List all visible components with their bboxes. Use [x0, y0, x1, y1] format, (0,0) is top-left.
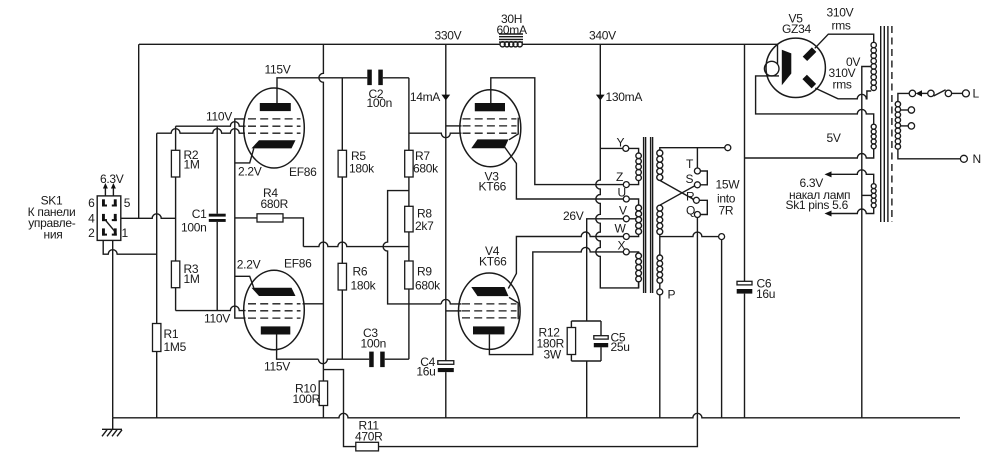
wire 6.3V top tap with arrow — [825, 170, 874, 184]
V4 cathode bar — [471, 287, 508, 296]
node switch circle a — [928, 90, 934, 96]
wire V2 anode down to C3 line — [277, 335, 319, 360]
resistor R1 — [153, 324, 161, 352]
wire R4 to R8-R9 junction — [303, 242, 409, 247]
svg-text:2.2V: 2.2V — [237, 258, 261, 272]
wire 330V column — [445, 44, 447, 418]
wire V5 upper anode to HV winding top — [815, 34, 874, 48]
wire mains top to L with switch — [898, 93, 909, 101]
svg-text:X: X — [618, 238, 626, 252]
wire to switch circle — [922, 92, 928, 94]
V4 anode plate — [473, 326, 505, 334]
V3 anode plate — [475, 103, 505, 111]
wire screen column from top rail to R10 junction — [319, 44, 323, 369]
OPT primary winding X-bottom — [629, 252, 638, 288]
svg-text:1M: 1M — [184, 158, 200, 172]
svg-text:rms: rms — [833, 78, 852, 92]
PT 6.3V winding — [871, 184, 876, 189]
OPT primary winding Y-Z — [629, 148, 639, 184]
pentode V1 EF86 envelope — [244, 88, 305, 168]
wire winding2 bottom to winding3 and terminal — [660, 232, 719, 255]
svg-text:115V: 115V — [264, 360, 290, 374]
wire SK1 pin2 down and right to R1 column — [103, 240, 157, 254]
arrow 14mA — [441, 95, 450, 101]
svg-text:680k: 680k — [413, 162, 439, 176]
node V terminal — [623, 216, 629, 222]
svg-text:1M: 1M — [184, 272, 200, 286]
wire winding1 bottom to R crossover — [660, 180, 694, 199]
wire V3 cathode to U tap — [504, 147, 623, 199]
SK1 pin contact 6 — [102, 199, 107, 206]
svg-text:1M5: 1M5 — [164, 340, 187, 354]
wire left rail to SK1 pin4 line — [138, 44, 140, 218]
node L terminal — [962, 90, 969, 97]
wire V3 screen from 330V column — [446, 125, 462, 127]
svg-text:25u: 25u — [611, 340, 630, 354]
wire P to ground rail — [659, 295, 661, 418]
svg-text:3W: 3W — [544, 348, 562, 362]
wire V4 grid row entry — [441, 299, 461, 304]
wire feedback from R11 to Q terminal — [379, 218, 698, 447]
resistor R12 with box — [567, 321, 601, 418]
resistor R8 — [405, 177, 413, 261]
SK1 heater pin stub 5 with arrow 6.3V — [111, 183, 116, 196]
svg-text:16u: 16u — [416, 365, 435, 379]
wire V3 anode to Z tap — [491, 78, 624, 185]
svg-text:6.3V: 6.3V — [100, 172, 124, 186]
wire V4 anode to X tap — [489, 247, 623, 354]
wire line B 110V to V1 bottom grid row — [157, 129, 245, 134]
svg-text:KT66: KT66 — [479, 255, 507, 269]
capacitor C4 — [438, 361, 454, 372]
svg-text:ния: ния — [44, 227, 63, 241]
V3 grid rows dashed — [463, 119, 517, 133]
svg-text:1: 1 — [122, 226, 129, 240]
tetrode V3 KT66 envelope — [460, 90, 521, 167]
wire cathode link column V1g3-V2g3 — [235, 119, 246, 318]
rectifier V5 GZ34 envelope — [766, 38, 825, 97]
svg-text:110V: 110V — [204, 312, 230, 326]
resistor R4 — [257, 214, 283, 222]
resistor R2 — [171, 126, 179, 261]
V5 filament stub from rail — [777, 44, 779, 64]
svg-text:W: W — [615, 221, 627, 235]
OPT secondary winding top — [657, 150, 663, 156]
capacitor C2 — [367, 70, 409, 86]
wire HT column to 5V winding bottom — [745, 149, 874, 158]
V5 filament loop — [764, 61, 779, 76]
svg-text:Z: Z — [616, 170, 623, 184]
svg-text:EF86: EF86 — [289, 165, 317, 179]
svg-text:R6: R6 — [353, 265, 368, 279]
SK1 pin contact 3 — [112, 214, 117, 221]
svg-text:60mA: 60mA — [497, 23, 527, 37]
arrow 130mA — [596, 95, 605, 101]
jumper R-Q — [699, 200, 707, 214]
wire V2 cathode to link column — [235, 276, 254, 288]
wire 6.3V winding center tap to 0V line — [862, 194, 871, 196]
wire V4 screen from 330V column — [446, 310, 462, 312]
wire mains bottom to N — [898, 149, 960, 159]
svg-text:6: 6 — [88, 196, 95, 210]
wire SK1 pin4 to R2-R3 junction — [121, 214, 176, 219]
svg-text:U: U — [618, 185, 626, 199]
svg-text:Q: Q — [686, 203, 695, 217]
svg-text:100n: 100n — [367, 96, 393, 110]
node switch circle b — [945, 90, 951, 96]
svg-text:0V: 0V — [846, 55, 860, 69]
wire R3-C1 line to V2 middle row — [176, 306, 246, 311]
svg-text:C1: C1 — [192, 207, 207, 221]
OPT primary V center stub — [629, 218, 635, 220]
SK1 pin contact 4 — [102, 214, 107, 221]
wire SK1 pin1 to ground rail — [112, 240, 114, 417]
svg-text:R9: R9 — [417, 265, 432, 279]
wire bottom ground rail — [113, 413, 960, 418]
wire winding2 top to S crossover — [660, 186, 695, 205]
resistor R7 — [405, 150, 413, 177]
svg-text:V: V — [619, 203, 627, 217]
choke L1 30H 60mA — [499, 34, 523, 47]
svg-text:26V: 26V — [563, 209, 584, 223]
jumper T-S — [700, 171, 707, 185]
node mains stub circle 1 — [909, 90, 915, 96]
node voltage tap circle upper — [908, 107, 914, 113]
capacitor C1 — [209, 126, 226, 310]
wire voltage tap stub upper — [901, 109, 909, 111]
resistor R10 — [319, 370, 327, 418]
resistor R6 — [338, 263, 346, 359]
V2 grid rows dashed — [248, 304, 301, 318]
wire R7 column top from C2 — [408, 78, 410, 151]
capacitor C5 — [594, 336, 608, 348]
wire V5 lower anode to HV winding bottom — [815, 88, 871, 99]
svg-text:100R: 100R — [293, 392, 321, 406]
svg-text:470R: 470R — [355, 430, 383, 444]
wire T stub — [696, 148, 698, 168]
resistor R11 — [356, 442, 379, 451]
node S terminal — [694, 182, 700, 188]
svg-text:680R: 680R — [261, 197, 289, 211]
svg-text:L: L — [973, 87, 980, 101]
wire R10 junction to R11 drop — [323, 370, 355, 447]
svg-text:5: 5 — [124, 196, 131, 210]
wire V2 top row to screen column — [303, 303, 324, 305]
SK1 pin contact 2 — [102, 228, 107, 235]
svg-text:180k: 180k — [349, 162, 375, 176]
svg-text:340V: 340V — [589, 29, 616, 43]
arrow mains fuse — [916, 90, 922, 96]
svg-text:GZ34: GZ34 — [782, 22, 811, 36]
svg-text:N: N — [973, 152, 981, 166]
svg-text:115V: 115V — [265, 63, 291, 77]
svg-text:5V: 5V — [827, 131, 841, 145]
node U terminal — [623, 196, 629, 202]
OPT primary winding U-W — [629, 199, 638, 237]
V2 anode plate — [261, 326, 291, 334]
resistor R4 leads — [235, 218, 304, 247]
node Z terminal — [623, 182, 629, 188]
V1 anode plate — [260, 103, 291, 111]
svg-text:Y: Y — [617, 136, 625, 150]
capacitor C3 — [318, 352, 409, 368]
node column V1-g1 feed x157 — [156, 133, 158, 418]
node T terminal — [694, 168, 700, 174]
svg-text:100n: 100n — [361, 337, 387, 351]
wire V1 anode to 115V line — [277, 78, 367, 103]
V5 cathode bar — [782, 50, 792, 86]
wire switch to L terminal — [952, 92, 963, 94]
wire 0V center tap line to ground rail — [862, 67, 871, 418]
svg-text:KT66: KT66 — [479, 179, 507, 193]
PT core dashed line — [891, 26, 893, 222]
switch blade — [934, 90, 946, 96]
svg-text:2k7: 2k7 — [415, 219, 434, 233]
capacitor C6 — [737, 281, 753, 293]
wire V4 cathode to W tap — [508, 232, 623, 289]
wire 26V line V tap to R12 C5 — [587, 219, 624, 321]
svg-text:2.2V: 2.2V — [238, 165, 262, 179]
V5 anode bar upper — [803, 47, 817, 61]
wire 340V bus with hops — [596, 44, 639, 288]
node output terminal top — [725, 145, 731, 151]
SK1 pin contact 5 — [112, 199, 117, 206]
V3 beam plate bar — [509, 118, 518, 140]
wire V5 filament to 5V winding top — [756, 76, 874, 124]
PT mains winding — [895, 102, 900, 107]
PT core solid lines — [881, 26, 888, 222]
svg-text:310V: 310V — [827, 6, 854, 20]
node voltage tap circle lower — [908, 123, 914, 129]
wire top rail 330V — [139, 43, 778, 45]
node Q terminal — [694, 212, 700, 218]
wire 6.3V bottom tap with arrow — [825, 208, 874, 217]
node W terminal — [623, 234, 629, 240]
V4 beam plate bar — [509, 297, 518, 319]
svg-text:Sk1 pins 5.6: Sk1 pins 5.6 — [786, 198, 849, 212]
node N terminal — [960, 155, 967, 162]
svg-text:7R: 7R — [719, 204, 734, 218]
OPT secondary winding middle — [657, 205, 663, 211]
connector SK1 box — [97, 196, 121, 241]
ground — [102, 418, 122, 437]
OPT secondary winding bottom — [659, 283, 661, 289]
wire V3 grid line — [409, 133, 462, 138]
svg-text:680k: 680k — [415, 279, 441, 293]
svg-text:EF86: EF86 — [284, 256, 312, 270]
V3 cathode bar — [471, 139, 508, 148]
wire voltage tap stub lower — [901, 125, 909, 127]
resistor R9 — [405, 261, 413, 359]
wire line A grid to V1 middle row — [176, 122, 246, 127]
svg-text:2: 2 — [88, 226, 95, 240]
V1 grid rows dashed — [248, 119, 301, 133]
node R terminal — [693, 197, 699, 203]
pentode V2 EF86 envelope — [244, 270, 305, 349]
wire screen loop vertical hop — [383, 191, 441, 304]
resistor R3 — [171, 261, 179, 311]
OPT core — [644, 137, 653, 293]
svg-text:4: 4 — [88, 211, 95, 225]
svg-text:130mA: 130mA — [606, 90, 643, 104]
svg-text:rms: rms — [832, 19, 851, 33]
SK1 pin contact 1 — [112, 228, 117, 235]
svg-text:S: S — [686, 172, 694, 186]
V2 cathode bar — [252, 288, 296, 296]
PT 5V winding — [871, 124, 876, 129]
wire C6 column from top rail — [744, 44, 746, 418]
svg-text:100n: 100n — [181, 221, 207, 235]
svg-text:330V: 330V — [435, 29, 462, 43]
wire V1 cathode to link column — [235, 148, 254, 163]
svg-text:110V: 110V — [206, 109, 232, 123]
svg-text:14mA: 14mA — [410, 90, 440, 104]
node Y terminal — [623, 145, 629, 151]
resistor R5 — [338, 78, 346, 263]
tetrode V4 KT66 envelope — [459, 273, 521, 349]
svg-text:R1: R1 — [164, 327, 179, 341]
node X terminal — [623, 249, 629, 255]
svg-text:P: P — [668, 288, 676, 302]
V1 cathode bar — [252, 140, 296, 148]
wire Y tee from bus — [600, 147, 623, 149]
node P terminal — [657, 289, 663, 295]
svg-text:180k: 180k — [351, 279, 377, 293]
svg-text:16u: 16u — [756, 287, 775, 301]
SK1 heater pin stub 6 with arrow 6.3V — [103, 183, 108, 196]
V4 grid rows dashed — [462, 304, 517, 318]
V5 anode bar lower — [802, 75, 816, 89]
wire secondary top to output terminal — [660, 148, 725, 150]
SK1 switch blade 4-1 — [105, 220, 115, 232]
svg-text:T: T — [686, 157, 694, 171]
node secondary lower terminal — [719, 234, 725, 240]
svg-text:15W: 15W — [716, 178, 741, 192]
wire lower terminal to ground rail — [721, 240, 723, 418]
PT HV winding — [871, 42, 876, 47]
